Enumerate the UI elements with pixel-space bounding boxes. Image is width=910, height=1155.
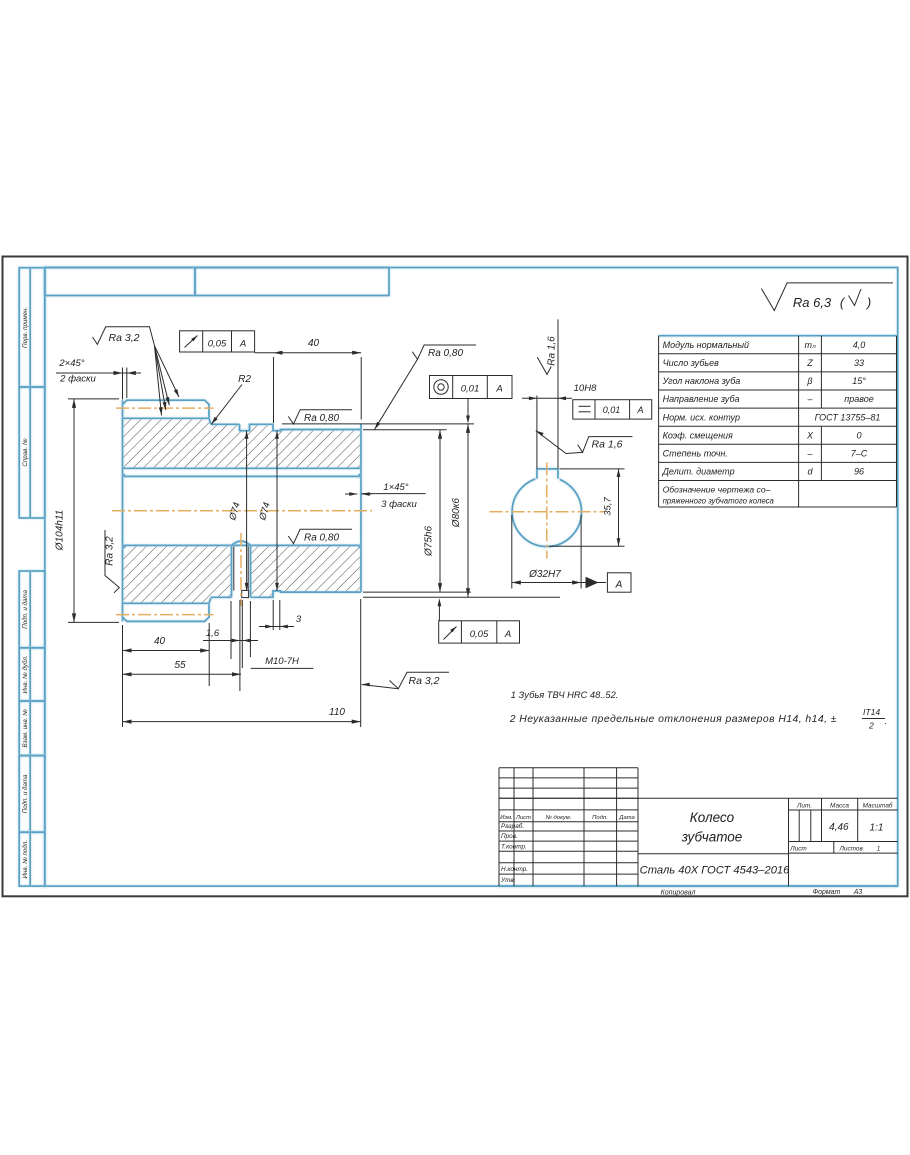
svg-text:Разраб.: Разраб.	[501, 822, 524, 830]
svg-text:Ø104h11: Ø104h11	[55, 510, 66, 551]
svg-text:3 фаски: 3 фаски	[381, 499, 417, 510]
svg-text:Масса: Масса	[830, 802, 849, 809]
svg-text:4,46: 4,46	[829, 822, 849, 833]
svg-text:7–С: 7–С	[851, 449, 868, 459]
svg-text:А: А	[615, 580, 623, 591]
svg-text:пряженного зубчатого колеса: пряженного зубчатого колеса	[663, 497, 775, 506]
svg-text:Число зубьев: Число зубьев	[663, 358, 720, 368]
svg-text:0,01: 0,01	[461, 384, 480, 395]
svg-text:Ra 0,80: Ra 0,80	[428, 348, 463, 359]
svg-text:β: β	[806, 376, 812, 386]
svg-text:Т.контр.: Т.контр.	[501, 843, 527, 850]
svg-text:Ra 1,6: Ra 1,6	[547, 336, 558, 366]
svg-text:Угол наклона зуба: Угол наклона зуба	[662, 376, 741, 386]
svg-text:правое: правое	[844, 394, 873, 404]
svg-text:А: А	[495, 384, 502, 395]
svg-text:Делит. диаметр: Делит. диаметр	[662, 467, 735, 477]
svg-text:Справ. №: Справ. №	[22, 438, 29, 466]
svg-text:Листов: Листов	[839, 846, 864, 853]
svg-text:зубчатое: зубчатое	[681, 830, 743, 845]
svg-text:Обозначение чертежа со–: Обозначение чертежа со–	[663, 485, 771, 495]
svg-text:Ø32Н7: Ø32Н7	[528, 569, 561, 580]
svg-text:–: –	[806, 394, 813, 404]
svg-text:1×45°: 1×45°	[383, 482, 408, 493]
svg-text:Подп. и дата: Подп. и дата	[22, 774, 29, 813]
svg-text:55: 55	[174, 660, 186, 671]
svg-text:Лист: Лист	[515, 815, 531, 821]
svg-text:Ra 6,3: Ra 6,3	[793, 295, 832, 310]
svg-text:0,01: 0,01	[603, 405, 621, 415]
svg-text:R2: R2	[238, 374, 251, 385]
svg-text:№ докум.: № докум.	[546, 814, 572, 821]
svg-text:М10-7Н: М10-7Н	[265, 656, 299, 667]
svg-text:–: –	[806, 449, 813, 459]
svg-text:Утв.: Утв.	[500, 877, 516, 884]
svg-text:Коэф. смещения: Коэф. смещения	[663, 430, 733, 440]
svg-text:Взам. инв. №: Взам. инв. №	[22, 709, 29, 748]
svg-text:10Н8: 10Н8	[574, 383, 597, 394]
svg-text:96: 96	[854, 467, 864, 477]
svg-text:Ra 0,80: Ra 0,80	[304, 413, 339, 424]
svg-text:1 Зубья ТВЧ HRC 48..52.: 1 Зубья ТВЧ HRC 48..52.	[511, 690, 619, 700]
svg-text:Модуль нормальный: Модуль нормальный	[663, 340, 749, 350]
svg-text:Ø75h6: Ø75h6	[424, 526, 435, 557]
svg-text:0: 0	[856, 430, 861, 440]
svg-text:33: 33	[854, 358, 864, 368]
svg-text:Лист: Лист	[789, 846, 807, 853]
svg-text:1: 1	[877, 846, 881, 853]
svg-text:2×45°: 2×45°	[58, 358, 84, 369]
svg-text:Инв. № дубл.: Инв. № дубл.	[22, 655, 29, 693]
svg-text:Норм. исх. контур: Норм. исх. контур	[663, 412, 740, 422]
svg-text:Ø80к6: Ø80к6	[451, 498, 462, 529]
svg-text:Подп. и дата: Подп. и дата	[22, 589, 29, 628]
svg-text:mₙ: mₙ	[804, 340, 815, 350]
svg-text:2 Неуказанные предельные откло: 2 Неуказанные предельные отклонения разм…	[509, 714, 837, 725]
svg-text:Дата: Дата	[618, 815, 635, 821]
svg-text:3: 3	[296, 614, 302, 625]
svg-text:А3: А3	[853, 889, 863, 896]
svg-text:Колесо: Колесо	[690, 810, 735, 825]
svg-text:А: А	[239, 339, 246, 350]
svg-text:Степень точн.: Степень точн.	[663, 449, 728, 459]
svg-text:Ra 1,6: Ra 1,6	[592, 439, 623, 451]
svg-text:Изм.: Изм.	[500, 815, 513, 821]
svg-text:35,7: 35,7	[603, 497, 614, 516]
svg-text:0,05: 0,05	[470, 629, 489, 640]
svg-text:1,6: 1,6	[206, 628, 220, 639]
svg-text:Пров.: Пров.	[501, 833, 518, 840]
svg-text:40: 40	[308, 338, 320, 349]
svg-text:Ra 0,80: Ra 0,80	[304, 532, 339, 543]
svg-text:2 фаски: 2 фаски	[59, 374, 96, 385]
svg-text:Масштаб: Масштаб	[863, 801, 893, 809]
svg-text:Направление зуба: Направление зуба	[663, 394, 740, 404]
svg-text:Z: Z	[806, 358, 813, 368]
svg-text:Ra 3,2: Ra 3,2	[409, 675, 440, 687]
svg-text:Лит.: Лит.	[796, 802, 812, 809]
svg-text:110: 110	[329, 707, 345, 718]
svg-text:Ra 3,2: Ra 3,2	[109, 332, 140, 344]
svg-text:40: 40	[154, 636, 166, 647]
svg-text:Сталь 40Х ГОСТ 4543–2016: Сталь 40Х ГОСТ 4543–2016	[640, 865, 791, 877]
svg-text:4,0: 4,0	[853, 340, 866, 350]
svg-text:Перв. примен.: Перв. примен.	[22, 307, 29, 348]
svg-text:Копировал: Копировал	[661, 890, 696, 897]
svg-text:Инв. № подл.: Инв. № подл.	[22, 840, 29, 878]
svg-text:1:1: 1:1	[870, 823, 884, 834]
svg-text:IT14: IT14	[863, 707, 880, 717]
svg-text:15°: 15°	[852, 376, 866, 386]
svg-text:Н.контр.: Н.контр.	[501, 866, 528, 873]
svg-text:ГОСТ 13755–81: ГОСТ 13755–81	[815, 412, 881, 422]
svg-text:.: .	[885, 716, 888, 726]
svg-text:X: X	[806, 430, 814, 440]
svg-text:А: А	[504, 629, 511, 640]
svg-text:Подп.: Подп.	[592, 815, 608, 821]
svg-text:А: А	[636, 405, 643, 415]
svg-text:Ra 3,2: Ra 3,2	[105, 536, 116, 566]
svg-text:2: 2	[868, 721, 874, 731]
svg-text:Формат: Формат	[813, 889, 841, 896]
svg-text:0,05: 0,05	[208, 339, 227, 350]
